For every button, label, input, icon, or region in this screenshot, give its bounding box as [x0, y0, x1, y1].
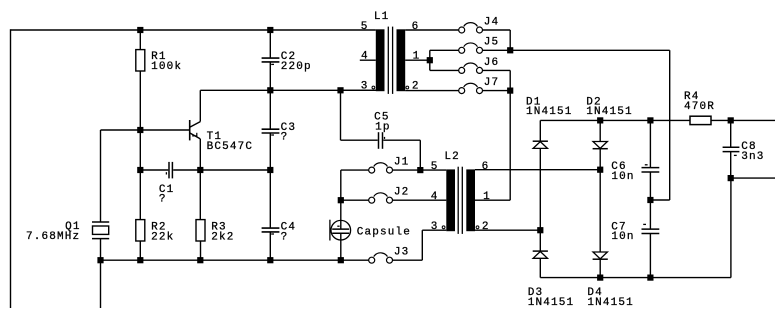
svg-text:470R: 470R: [684, 101, 715, 113]
svg-text:3: 3: [431, 221, 439, 233]
svg-text:J2: J2: [394, 187, 410, 199]
svg-text:4: 4: [361, 51, 369, 63]
svg-text:Capsule: Capsule: [357, 227, 411, 239]
svg-text:220p: 220p: [281, 61, 312, 73]
svg-text:2: 2: [412, 80, 420, 92]
svg-text:100k: 100k: [151, 61, 182, 73]
svg-text:6: 6: [482, 161, 490, 173]
svg-text:L1: L1: [374, 11, 390, 23]
svg-text:J1: J1: [394, 156, 410, 168]
svg-text:J4: J4: [484, 16, 500, 28]
svg-text:10n: 10n: [611, 171, 634, 183]
svg-text:22k: 22k: [151, 231, 174, 243]
svg-text:?: ?: [281, 231, 289, 243]
svg-text:5: 5: [431, 161, 439, 173]
svg-text:BC547C: BC547C: [207, 141, 254, 153]
svg-text:1: 1: [413, 51, 421, 63]
svg-text:1N4151: 1N4151: [587, 297, 634, 309]
svg-text:6: 6: [412, 21, 420, 33]
svg-text:1N4151: 1N4151: [528, 297, 575, 309]
svg-text:?: ?: [159, 194, 167, 206]
svg-text:4: 4: [431, 191, 439, 203]
svg-text:1N4151: 1N4151: [526, 106, 573, 118]
svg-text:1p: 1p: [375, 121, 391, 133]
svg-text:J7: J7: [484, 77, 500, 89]
svg-text:2k2: 2k2: [211, 231, 234, 243]
svg-text:J6: J6: [484, 57, 500, 69]
svg-text:3: 3: [361, 80, 369, 92]
svg-text:10n: 10n: [611, 231, 634, 243]
svg-text:7.68MHz: 7.68MHz: [26, 231, 80, 243]
svg-text:1N4151: 1N4151: [586, 106, 633, 118]
svg-text:5: 5: [361, 21, 369, 33]
svg-text:2: 2: [482, 221, 490, 233]
svg-text:?: ?: [281, 132, 289, 144]
svg-text:L2: L2: [444, 151, 460, 163]
svg-text:1: 1: [483, 191, 491, 203]
svg-text:J5: J5: [484, 37, 500, 49]
svg-text:3n3: 3n3: [741, 151, 764, 163]
svg-text:J3: J3: [394, 247, 410, 259]
